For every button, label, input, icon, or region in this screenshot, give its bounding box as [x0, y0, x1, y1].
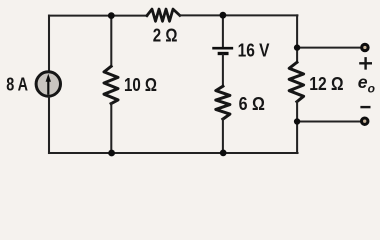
wire left rail upper [48, 16, 50, 71]
battery 16V short plate [219, 52, 227, 55]
terminal bottom [362, 118, 368, 124]
svg-text:o: o [368, 81, 375, 95]
node top of middle branch [220, 12, 227, 19]
wire middle branch lower [222, 119, 224, 153]
svg-text:8 A: 8 A [6, 74, 28, 95]
wire output bottom [297, 120, 360, 122]
label plus [360, 58, 370, 68]
node bottom of 10 ohm branch [108, 150, 115, 157]
node right rail output bottom [294, 118, 300, 124]
battery 16V long plate [214, 47, 232, 50]
wire middle branch mid [222, 55, 224, 87]
current source I1 circle [36, 72, 60, 96]
resistor 6 ohm zigzag [216, 86, 230, 119]
svg-text:12 Ω: 12 Ω [309, 73, 343, 94]
node top of 10 ohm branch [108, 12, 115, 19]
svg-text:6 Ω: 6 Ω [239, 93, 265, 114]
node right rail output top [294, 44, 300, 50]
svg-text:2 Ω: 2 Ω [153, 24, 178, 45]
wire 10 ohm branch lower [110, 103, 112, 153]
wire right rail lower [296, 102, 298, 154]
wire 10 ohm branch upper [110, 16, 112, 67]
resistor 12 ohm zigzag [289, 62, 303, 101]
terminal top [362, 44, 368, 50]
wire output top [297, 47, 360, 49]
resistor 10 ohm zigzag [104, 66, 118, 103]
svg-text:e: e [358, 72, 368, 92]
wire top rail left segment [49, 15, 147, 17]
wire middle branch upper [222, 15, 224, 47]
wire right rail upper [296, 15, 298, 62]
wire bottom rail [49, 152, 298, 154]
svg-text:10 Ω: 10 Ω [124, 74, 157, 95]
label minus [362, 106, 370, 108]
wire top rail right segment [180, 14, 298, 16]
resistor 2 ohm zigzag [147, 9, 180, 21]
node bottom of middle branch [220, 150, 227, 157]
wire left rail lower [48, 97, 50, 153]
current source arrow [47, 81, 49, 94]
svg-text:16 V: 16 V [238, 40, 271, 61]
